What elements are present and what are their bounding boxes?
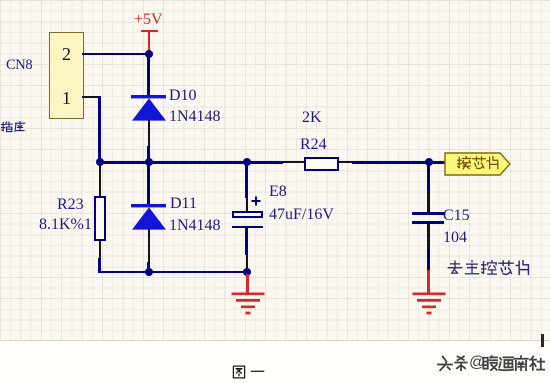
SVG glyph definitions for CJK characters — [0, 0, 5, 5]
value 104 — [443, 230, 467, 246]
port 接芯片 (to chip) — [444, 152, 512, 176]
ground GND right bars — [410, 292, 448, 316]
designator C15 — [443, 208, 470, 224]
junction node A (pin1/R23) — [96, 158, 104, 166]
diode D10 — [128, 93, 170, 123]
label 插座 (socket) — [1, 121, 13, 133]
node row wire right segment — [352, 161, 429, 164]
wire E8 bottom — [245, 228, 248, 255]
ground row wire — [98, 271, 248, 274]
capacitor C15 top plate — [412, 212, 444, 215]
capacitor E8 top plate — [232, 211, 263, 218]
value 2K — [302, 110, 322, 126]
pin lead C15 top — [427, 191, 429, 212]
pin lead R24 right — [338, 161, 352, 163]
crop mark tick — [541, 334, 544, 347]
ground GND left stem — [246, 274, 248, 293]
capacitor E8 plus sign — [251, 196, 261, 206]
junction +5V node — [145, 50, 153, 58]
diode D11 — [128, 202, 170, 232]
caption 图一 (Figure 1) — [232, 365, 246, 379]
pin lead R23 top — [99, 163, 101, 196]
wire out node down to C15 — [427, 163, 430, 191]
designator D11 — [170, 196, 197, 212]
junction ground row (D11) — [145, 268, 153, 276]
wire pin2 to +5V node — [82, 53, 149, 56]
wire R23 to ground row — [98, 258, 101, 272]
designator R23 — [57, 197, 84, 213]
wire pin1 down to node row — [98, 96, 101, 163]
node row wire left segment — [98, 161, 283, 164]
designator D10 — [169, 88, 197, 104]
pin lead connector pin 1 — [82, 96, 99, 98]
value 47uF/16V — [269, 207, 334, 223]
wire out node to port — [429, 161, 445, 164]
pin lead R23 bottom — [99, 241, 101, 258]
designator CN8 — [6, 58, 32, 73]
ground GND right stem — [427, 270, 429, 293]
junction node A (E8) — [243, 158, 251, 166]
capacitor E8 bottom plate — [232, 226, 263, 229]
power label +5V — [134, 12, 163, 28]
pin lead R24 left — [283, 161, 304, 163]
pin lead D11 anode — [148, 229, 150, 262]
junction node A (diodes) — [145, 158, 153, 166]
power stem +5V — [148, 30, 150, 53]
junction ground row (E8/GND) — [243, 268, 251, 276]
value 1N4148 — [169, 109, 221, 125]
connector CN8 body — [49, 32, 84, 119]
label 去主控芯片 (to main control chip) — [447, 260, 463, 276]
resistor R23 — [94, 196, 107, 241]
capacitor C15 bottom plate — [412, 221, 444, 224]
pin number 1 — [62, 89, 71, 107]
watermark 头条 @暖通南社 — [437, 355, 453, 372]
resistor R24 — [304, 157, 339, 172]
port text 接芯片 — [457, 156, 471, 170]
pin lead D10 anode — [148, 120, 150, 146]
wire +5V node down to D10 — [147, 55, 150, 95]
value 8.1K%1 — [39, 217, 92, 233]
ground GND left bars — [229, 292, 267, 316]
junction node out (port/C15) — [425, 158, 433, 166]
designator R24 — [300, 137, 327, 153]
wire node A down to E8 — [245, 163, 248, 198]
wire C15 to ground — [427, 248, 430, 270]
pin number 2 — [62, 45, 71, 63]
power bar symbol +5V — [141, 30, 158, 32]
pin lead E8 positive — [246, 198, 248, 211]
wire D10 anode to node row — [147, 146, 150, 162]
value 1N4148 (D11) — [169, 218, 221, 234]
pin lead C15 bottom — [427, 224, 429, 248]
pin lead E8 negative — [246, 255, 248, 270]
wire node A down to D11 — [147, 163, 150, 204]
designator E8 — [269, 184, 287, 200]
wire D11 anode to ground row — [147, 262, 150, 272]
